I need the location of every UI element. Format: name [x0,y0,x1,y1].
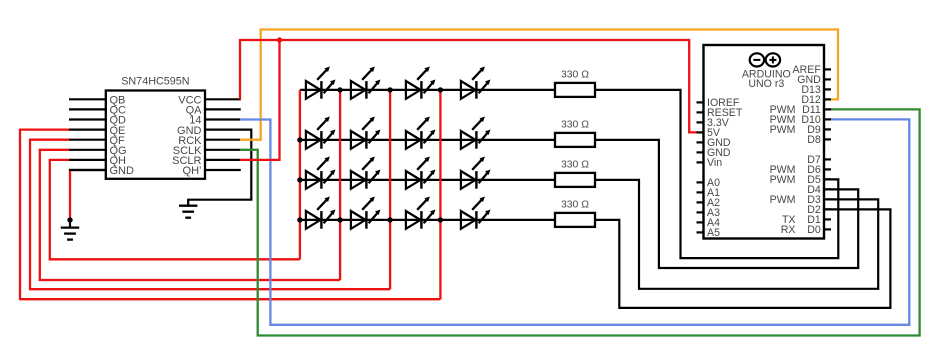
ground GND1 symbol [61,220,79,240]
resistor R4 330Ω [555,200,595,227]
svg-text:Vin: Vin [707,157,722,169]
junction row2/col1 [297,137,302,142]
Arduino pin A3 (left stub + label) [697,207,721,219]
Arduino pin A4 (left stub + label) [697,217,721,229]
U1 pin QH' (right stub + label) [183,165,241,177]
wire: U1 pin14 to Arduino D10 (blue) [240,119,909,324]
Arduino pin GND (stub + label) [797,74,831,86]
wire: U1 RCK to Arduino D12 (orange) [240,30,838,140]
U1 pin QE (left stub + label) [69,125,125,137]
junction row1/col3 [387,87,392,92]
U1 pin QB (left stub + label) [69,95,125,107]
Arduino pin A5 (left stub + label) [697,227,721,239]
LED row3 col1 [306,157,336,189]
Arduino pin GND5 (left stub + label) [697,147,731,159]
Arduino pin D12 (stub + label) [801,94,831,106]
wire: LED row 4 through R4 to Arduino D2 (black) [300,209,891,308]
LED row3 col3 [406,157,436,189]
Arduino pin D9 (stub + label) [770,124,831,136]
U1 pin VCC (right stub + label) [178,95,241,107]
wire: U1 VCC up and across to Arduino 5V (red) [240,40,698,132]
Arduino pin D11 (stub + label) [770,104,831,116]
svg-text:D0: D0 [807,224,821,236]
LED row2 col1 [306,117,336,149]
wire: LED column 4 vertical (red) [439,90,441,299]
Arduino pin D5 (stub + label) [770,174,831,186]
Arduino pin D13 (stub + label) [801,84,831,96]
Arduino pin AREF (stub + label) [793,64,831,76]
svg-text:330 Ω: 330 Ω [561,120,589,131]
junction row4/col4 [438,217,443,222]
U1 pin QG (left stub + label) [69,145,127,157]
LED row1 col2 [351,67,381,99]
Arduino logo [750,53,780,66]
U1 pin RCK (right stub + label) [178,135,241,147]
junction row4/col1 [297,217,302,222]
LED row4 col3 [406,197,436,229]
U1 pin QA (right stub + label) [186,105,241,117]
LED row4 col1 [306,197,336,229]
wire: U1 QG to LED column (red) [40,150,340,280]
U1 pin QC (left stub + label) [69,105,126,117]
wire: U1 GND(right) to ground GND2 [188,130,251,206]
wire: LED row 2 through R2 to Arduino D4 (black) [300,140,858,268]
junction red power net [277,37,282,42]
U1 pin GND (right stub + label) [177,125,241,137]
wire: U1 SCLK to Arduino D11 (green) [240,109,920,335]
LED row1 col3 [406,67,436,99]
U1 pin QH (left stub + label) [69,155,126,167]
wire: LED row 1 through R1 to Arduino D5 (black) [300,90,838,258]
junction at ground GND1 [67,217,72,222]
Arduino pin A0 (left stub + label) [697,177,721,189]
shift register U1 SN74HC595N body [106,76,205,179]
wire: U1 QH to LED column (red) [50,160,300,259]
LED row2 col3 [406,117,436,149]
svg-text:QH’: QH’ [183,165,202,177]
Arduino pin IOREF (left stub + label) [697,97,740,109]
svg-text:D8: D8 [807,134,821,146]
svg-text:PWM: PWM [770,174,796,186]
svg-text:UNO r3: UNO r3 [748,78,784,90]
LED row3 col2 [351,157,381,189]
junction row3/col1 [297,177,302,182]
LED row4 col2 [351,197,381,229]
Arduino UNO r3 body [704,45,825,239]
Arduino pin GND4 (left stub + label) [697,137,731,149]
U1 pin GND (left stub + label) [69,165,134,177]
LED row2 col4 [461,117,491,149]
wire: LED column 3 vertical (red) [389,90,391,289]
svg-text:PWM: PWM [770,124,796,136]
resistor R1 330Ω [555,70,595,97]
Arduino pin D3 (stub + label) [770,194,831,206]
resistor R3 330Ω [555,160,595,187]
LED row1 col4 [461,67,491,99]
U1 pin SCLR (right stub + label) [172,155,241,167]
svg-text:A5: A5 [707,227,720,239]
junction row1/col2 [337,87,342,92]
U1 pin QF (left stub + label) [69,135,125,147]
wire: U1 QE to LED column (red) [20,130,440,300]
svg-text:GND: GND [110,165,135,177]
Arduino pin D2 (stub + label) [807,204,831,216]
Arduino pin 5V (left stub + label) [697,127,721,139]
wire: U1 GND(left) to ground (red) [69,171,71,220]
wire: U1 QF to LED column (red) [30,140,390,290]
U1 pin 14 (right stub + label) [189,115,241,127]
Arduino title text [742,69,791,90]
svg-text:SN74HC595N: SN74HC595N [121,76,189,88]
svg-text:PWM: PWM [770,194,796,206]
wire: red branch down to U1 SCLR [240,40,280,160]
junction row4/col3 [387,217,392,222]
svg-text:330 Ω: 330 Ω [561,160,589,171]
Arduino pin D6 (stub + label) [770,164,831,176]
ground GND2 symbol [179,206,197,218]
Arduino pin D10 (stub + label) [770,114,831,126]
Arduino pin RESET (left stub + label) [697,107,743,119]
Arduino pin D1 (stub + label) [782,214,831,226]
Arduino pin Vin (left stub + label) [697,157,723,169]
U1 pin QD (left stub + label) [69,115,126,127]
wire: LED row 3 through R3 to Arduino D3 (black) [300,180,878,289]
Arduino pin D7 (stub + label) [807,154,831,166]
U1 pin SCLK (right stub + label) [173,145,241,157]
junction row4/col2 [337,217,342,222]
svg-text:RX: RX [781,224,796,236]
svg-text:330 Ω: 330 Ω [561,70,589,81]
Arduino pin A1 (left stub + label) [697,187,721,199]
wire: LED column 2 vertical (red) [339,90,341,280]
wire: U1 GND(left) stub corner (black) [70,170,106,172]
LED row4 col4 [461,197,491,229]
junction row1/col4 [438,87,443,92]
Arduino pin 3.3V (left stub + label) [697,117,730,129]
LED row1 col1 [306,67,336,99]
Arduino pin D4 (stub + label) [807,184,831,196]
Arduino pin A2 (left stub + label) [697,197,721,209]
resistor R2 330Ω [555,120,595,147]
wire: LED column 1 vertical (red) [299,90,301,259]
LED row3 col4 [461,157,491,189]
Arduino pin D8 (stub + label) [807,134,831,146]
Arduino pin D0 (stub + label) [781,224,831,236]
LED row2 col2 [351,117,381,149]
svg-text:330 Ω: 330 Ω [561,200,589,211]
